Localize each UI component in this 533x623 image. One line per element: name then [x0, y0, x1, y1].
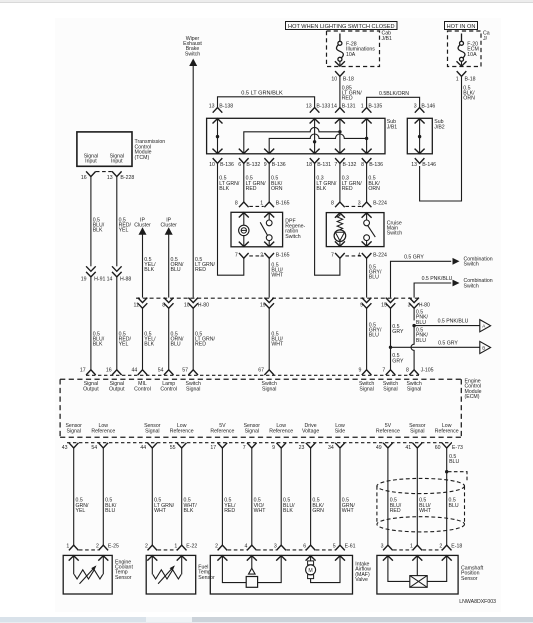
connector B-146 pin 3	[414, 104, 436, 113]
fuse box Cab J/B1 right	[448, 31, 482, 67]
svg-text:10A: 10A	[346, 52, 356, 58]
svg-text:16: 16	[106, 368, 112, 374]
Sub J/B1 output arrow B-136 10	[213, 149, 223, 154]
ECM bottom pin 44	[140, 443, 157, 451]
sensor wire	[387, 448, 389, 546]
label Transmission Control Module	[135, 139, 166, 161]
label Intake Airflow MAF Valve	[355, 561, 371, 583]
svg-text:Signal: Signal	[66, 428, 80, 434]
svg-text:13: 13	[107, 175, 113, 181]
svg-text:GRY: GRY	[392, 329, 404, 335]
svg-text:BLU: BLU	[105, 508, 115, 514]
fuse F-20 ECM 10A	[457, 34, 479, 67]
connector B-224 top link dash	[345, 205, 361, 207]
ECM pin function Switch Signal top x390.5	[383, 381, 398, 393]
connector B-165 bottom link dash	[249, 255, 263, 257]
connector B-136 pin 9	[264, 158, 286, 168]
sensor wire	[181, 448, 183, 546]
DPF illumination lamp	[239, 212, 249, 247]
wire label 0.5 LT GRN/ RED at x243.8	[246, 176, 267, 192]
DPF switch contact lower	[266, 235, 272, 241]
ECM pin function Sensor Signal bottom x251.8	[244, 423, 261, 435]
module box ECM dashed	[60, 379, 461, 437]
wire B-132 pin7 to B-224 pin8	[339, 163, 341, 202]
MAF solenoid triangle	[249, 568, 256, 574]
svg-text:10: 10	[331, 76, 337, 82]
svg-text:23: 23	[299, 445, 305, 451]
svg-text:Switch: Switch	[387, 231, 402, 237]
svg-text:Control: Control	[160, 387, 177, 393]
svg-text:6: 6	[238, 162, 241, 168]
fuel sensor wires	[152, 555, 181, 574]
svg-text:GRN: GRN	[312, 508, 324, 514]
coolant sensor thermistor	[74, 565, 103, 583]
svg-text:19: 19	[260, 303, 266, 309]
ECM top pin 9	[359, 368, 372, 375]
connector B-136 pin 8	[361, 158, 383, 168]
wire label 0.5 GRY to B	[438, 340, 458, 346]
arrow to wiper exhaust brake switch	[189, 59, 197, 67]
svg-text:BLU: BLU	[171, 267, 181, 273]
wire label 0.5 BLK/ BLU bottom x103.3	[105, 498, 117, 514]
svg-text:57: 57	[182, 368, 188, 374]
wire label 0.5 GRY/BLU upper	[369, 264, 382, 280]
Sub J/B2 bus wire	[418, 118, 421, 154]
svg-text:Signal: Signal	[359, 387, 373, 393]
fuel sensor thermistor	[153, 565, 181, 583]
svg-text:0.5 GRY: 0.5 GRY	[438, 340, 458, 346]
svg-text:E-25: E-25	[108, 543, 119, 549]
svg-text:14: 14	[107, 277, 113, 283]
svg-text:14: 14	[331, 104, 337, 110]
shield drain junction	[445, 470, 448, 473]
svg-text:2: 2	[96, 543, 99, 549]
svg-text:1: 1	[174, 543, 177, 549]
connector H-80 pin 19	[260, 298, 274, 309]
svg-text:B-136: B-136	[220, 162, 234, 168]
Sub J/B1 bus wire v3	[366, 118, 368, 154]
svg-text:19: 19	[81, 277, 87, 283]
ECM bottom pin 34	[328, 443, 345, 451]
svg-text:3: 3	[381, 543, 384, 549]
wire label 0.5 LT GRN/ WHT bottom x152.3	[154, 498, 175, 514]
Sub J/B1 link wire upper	[244, 127, 342, 153]
wire label 0.5 VIO/ WHT bottom x251.8	[254, 498, 267, 514]
svg-text:54: 54	[91, 445, 97, 451]
svg-text:Switch: Switch	[285, 234, 300, 240]
connector E-22 pin 1 bottom	[174, 543, 197, 550]
svg-text:H-88: H-88	[120, 277, 131, 283]
connector B-131 pin 18	[306, 158, 331, 168]
svg-text:YEL: YEL	[119, 342, 129, 348]
connector E pin 2 bottom	[145, 543, 157, 550]
connector E pin 6 bottom	[303, 543, 315, 550]
svg-text:8: 8	[361, 162, 364, 168]
svg-text:44: 44	[140, 445, 146, 451]
svg-text:B-228: B-228	[120, 175, 134, 181]
ECM bottom pin row dashes	[67, 442, 452, 444]
label Engine Control Module ECM	[465, 378, 482, 400]
svg-text:B-138: B-138	[219, 104, 233, 110]
page top border	[0, 0, 533, 2]
bottom status band	[0, 617, 533, 622]
connector E pin 1 bottom	[66, 543, 78, 550]
svg-text:HOT WHEN LIGHTING SWITCH CLOSE: HOT WHEN LIGHTING SWITCH CLOSED	[288, 24, 395, 30]
svg-text:8: 8	[331, 200, 334, 206]
wire label 0.5 BLU/ WHT bottom x417.3	[419, 498, 432, 514]
svg-text:49: 49	[376, 445, 382, 451]
DPF switch wire upper stub	[268, 212, 270, 220]
svg-text:Signal: Signal	[410, 428, 424, 434]
svg-text:Sensor: Sensor	[198, 575, 215, 581]
cruise switch input arrow left	[335, 213, 345, 218]
svg-text:Signal: Signal	[383, 387, 397, 393]
svg-text:0.5BLK/ORN: 0.5BLK/ORN	[379, 91, 409, 97]
svg-text:13: 13	[209, 104, 215, 110]
svg-text:BLK: BLK	[144, 342, 154, 348]
wire label 0.5 RED/YEL upper	[119, 217, 132, 233]
wire wiper switch to H-80	[192, 66, 194, 298]
wire label 0.5 BLK/ GRN bottom x310.6	[312, 498, 324, 514]
wire label 0.5 ORN/BLU	[171, 257, 185, 273]
svg-text:WHT: WHT	[154, 508, 167, 514]
svg-text:2: 2	[439, 543, 442, 549]
DPF switch output arrow right	[264, 242, 274, 247]
svg-text:13: 13	[411, 162, 417, 168]
svg-text:43: 43	[62, 445, 68, 451]
svg-text:WHT: WHT	[271, 342, 284, 348]
label Wiper Exhaust Brake Switch	[183, 36, 202, 58]
ECM top pin row dashes	[86, 374, 419, 376]
ECM pin function Sensor Signal bottom x73.7	[65, 423, 82, 435]
wire label 0.5 GRY upper	[392, 324, 404, 335]
svg-text:WHT: WHT	[419, 508, 432, 514]
bottom connector link dash	[228, 549, 247, 551]
svg-text:B-165: B-165	[276, 252, 290, 258]
connector H-80 pin 15	[381, 298, 395, 309]
svg-text:5: 5	[333, 543, 336, 549]
arrow to IP cluster 2	[165, 227, 173, 235]
MAF solenoid wires	[222, 555, 281, 582]
ECM bottom pin 43	[62, 443, 79, 451]
svg-text:YEL: YEL	[76, 508, 86, 514]
connector B-138 pin 13	[209, 104, 234, 113]
wire label 0.5 BLK/ORN right fuse	[463, 85, 475, 101]
svg-text:7: 7	[382, 368, 385, 374]
svg-text:1: 1	[410, 543, 413, 549]
ECM pin function Switch Signal top x414.1	[406, 381, 421, 393]
Sub J/B1 input arrow B-138	[213, 119, 223, 124]
wire B-136 pin10 to B-165 pin7	[218, 163, 244, 275]
Sub J/B1 bus wire v1	[313, 118, 316, 154]
sensor wire	[310, 448, 312, 546]
camshaft sensor wires	[388, 555, 447, 581]
svg-text:9: 9	[360, 303, 363, 309]
wire to ECM pin	[268, 308, 270, 369]
wire label 0.5 PNK/BLU combination	[422, 276, 453, 282]
svg-text:15: 15	[381, 303, 387, 309]
wire label 0.5 BLU top right	[449, 454, 459, 465]
arrow to IP cluster 1	[139, 227, 147, 235]
wire label 0.5 BLU/WHT upper	[271, 262, 284, 278]
wire TCM 13 to H-88	[116, 177, 118, 267]
svg-text:H-80: H-80	[419, 303, 430, 309]
wire label 0.5 GRY lower	[392, 353, 404, 364]
connector B-224 pin 8	[331, 200, 345, 207]
cruise switch output arrow right	[362, 241, 372, 246]
connector B-224 pin 3	[358, 200, 387, 207]
svg-text:1: 1	[260, 200, 263, 206]
svg-text:RED: RED	[342, 186, 353, 192]
sensor wire	[251, 448, 253, 546]
svg-text:B: B	[482, 345, 485, 350]
svg-text:Switch: Switch	[464, 283, 479, 289]
sensor box Engine Coolant Temp Sensor	[63, 555, 112, 594]
wire B-136 pin9 to B-165 pin1	[268, 163, 270, 202]
svg-text:J-105: J-105	[421, 368, 434, 374]
wire label 0.5 BLU/ BLK bottom x281.2	[283, 498, 295, 514]
wire label 0.5 BLU/ RED bottom x387.9	[390, 498, 402, 514]
svg-text:Input: Input	[85, 159, 97, 165]
svg-text:0.5 PNK/BLU: 0.5 PNK/BLU	[422, 276, 453, 282]
wire B-131 pin18 to B-224 pin7	[315, 163, 340, 275]
svg-text:BLK: BLK	[219, 186, 229, 192]
DPF switch contact upper	[266, 220, 272, 226]
wire label 0.5 BLU/WHT lower	[271, 331, 284, 347]
wire label 0.5 GRN/ WHT bottom x340	[342, 498, 356, 514]
svg-text:ORN: ORN	[368, 186, 380, 192]
ECM pin function 5V Reference bottom x387.9	[376, 423, 400, 435]
svg-text:7: 7	[235, 252, 238, 258]
sensor wire	[446, 448, 448, 546]
wire to B	[391, 346, 480, 348]
svg-text:B-133: B-133	[316, 104, 330, 110]
wire label 0.5 BLU/BLK lower	[93, 331, 105, 347]
connector B-165 top link dash	[249, 205, 263, 207]
label Cruise Main Switch	[387, 220, 402, 236]
Sub J/B2 output arrow	[415, 149, 425, 154]
label IP Cluster 2	[160, 217, 177, 228]
coolant sensor wires	[74, 555, 104, 574]
connector B-131 pin 14	[331, 104, 356, 113]
connector B-224 bottom link dash	[345, 255, 361, 257]
svg-text:17: 17	[210, 445, 216, 451]
svg-text:RED: RED	[195, 267, 206, 273]
header HOT IN ON	[445, 22, 478, 30]
svg-text:Sensor: Sensor	[461, 576, 478, 582]
svg-text:Control: Control	[134, 387, 151, 393]
svg-text:18: 18	[306, 162, 312, 168]
label IP Cluster 1	[134, 217, 151, 228]
ECM top pin 54	[158, 368, 174, 375]
junction box Sub J/B2	[407, 118, 432, 154]
ECM bottom pin 7	[243, 443, 257, 451]
svg-text:8: 8	[162, 303, 165, 309]
label Sub J/B2	[434, 119, 444, 130]
camshaft sensor element	[410, 576, 427, 588]
connector E-25 pin 2 bottom	[96, 543, 119, 550]
connector H-88 pin 14	[107, 266, 132, 282]
svg-text:ORN: ORN	[271, 186, 283, 192]
connector B-165 pin 2	[260, 252, 289, 258]
wire IP cluster 2 down	[168, 234, 170, 297]
svg-text:9: 9	[264, 162, 267, 168]
cruise switch contact upper	[364, 220, 370, 226]
ECM pin function Signal Output top x90.9	[83, 381, 99, 393]
svg-text:B-131: B-131	[317, 162, 331, 168]
svg-text:M: M	[308, 568, 312, 574]
svg-text:E-18: E-18	[451, 543, 462, 549]
wire combination switch PNK/BLU	[414, 283, 451, 298]
Sub J/B1 input arrow B-131	[335, 119, 345, 124]
wire label 0.5 YEL/BLK lower	[144, 331, 156, 347]
svg-text:9: 9	[359, 368, 362, 374]
cruise switch lever	[368, 226, 376, 238]
label Sub J/B1	[387, 119, 397, 130]
bottom connector link dash	[257, 549, 276, 551]
cruise switch input arrow right	[362, 213, 372, 218]
wire label 0.5 WHT/ BLK bottom x181.7	[184, 498, 198, 514]
svg-text:2: 2	[145, 543, 148, 549]
wire label 0.5 YEL/BLK	[144, 257, 156, 273]
svg-text:8: 8	[406, 368, 409, 374]
svg-text:Switch: Switch	[185, 51, 200, 57]
ECM bottom pin 23	[299, 443, 316, 451]
svg-text:3: 3	[408, 303, 411, 309]
wire to ECM pin	[142, 308, 144, 369]
svg-text:Reference: Reference	[91, 428, 115, 434]
svg-text:11: 11	[134, 303, 139, 309]
Sub J/B1 output arrow B-132 7	[335, 149, 345, 154]
svg-text:H-80: H-80	[198, 303, 209, 309]
scan background	[55, 18, 501, 612]
ECM top pin 16	[106, 368, 122, 375]
DPF switch input arrow right	[264, 213, 274, 218]
ECM pin function MIL Control top x142.5	[134, 381, 151, 393]
ECM top pin 8	[406, 368, 434, 375]
ECM pin function Signal Output top x116.8	[109, 381, 125, 393]
svg-text:B-146: B-146	[422, 162, 436, 168]
ECM pin function Low Reference bottom x446.7	[435, 423, 459, 435]
svg-text:BLU: BLU	[416, 338, 426, 344]
svg-text:B-224: B-224	[373, 200, 387, 206]
ECM top pin 17	[80, 368, 96, 375]
svg-text:Reference: Reference	[435, 428, 459, 434]
wire label 0.5 LT GRN/RED lower	[195, 331, 216, 347]
connector B-133 pin 13	[306, 104, 331, 113]
svg-text:WHT: WHT	[342, 508, 355, 514]
svg-text:3: 3	[414, 104, 417, 110]
Sub J/B1 input arrow B-133	[310, 119, 320, 124]
svg-text:Voltage: Voltage	[302, 428, 319, 434]
junction box Sub J/B1	[207, 118, 385, 154]
svg-text:BLK: BLK	[93, 342, 103, 348]
connector B-18 pin 10	[331, 71, 354, 82]
svg-text:BLK: BLK	[184, 508, 194, 514]
ECM bottom pin 17	[210, 443, 227, 451]
arrow to combination switch 2	[453, 280, 460, 287]
connector E pin 3 bottom	[381, 543, 393, 550]
svg-text:Input: Input	[111, 159, 123, 165]
svg-text:(ECM): (ECM)	[465, 394, 480, 400]
shield flag dashes	[448, 472, 467, 483]
svg-text:Signal: Signal	[145, 428, 159, 434]
sensor box Intake Airflow MAF Valve	[210, 555, 352, 594]
bottom connector link dash	[393, 549, 412, 551]
wire label 0.5 GRN/ YEL bottom x73.7	[76, 498, 90, 514]
DPF switch output arrow left	[239, 242, 249, 247]
label TCM signal input 2	[110, 153, 124, 164]
wire label 0.5 ORN/BLU lower	[171, 331, 185, 347]
wire label 0.5BLK/ORN top	[379, 91, 409, 97]
wire label 0.5 BLK/ ORN at x366.6	[368, 176, 380, 192]
wire label 0.5 LT GRN/RED wiper	[195, 257, 216, 273]
ECM bottom pin 60	[435, 443, 463, 451]
wire H-80 3 to ECM 8	[411, 308, 416, 369]
svg-text:BLU: BLU	[369, 333, 379, 339]
wire label 0.5 GRY combination	[404, 254, 424, 260]
svg-text:3: 3	[274, 543, 277, 549]
connector E pin 4 bottom	[245, 543, 257, 550]
label DPF Regeneration Switch	[285, 218, 305, 240]
label Cab J/B1 right clipped	[483, 31, 490, 42]
svg-text:B-132: B-132	[343, 162, 357, 168]
label Combination Switch 1	[464, 256, 493, 267]
wire label 0.5 LT GRN/BLK top	[241, 90, 283, 96]
bottom connector link dash	[316, 549, 335, 551]
wire to ECM pin	[192, 308, 194, 369]
MAF input arrows	[217, 556, 345, 561]
connector H-80 pin 3	[408, 298, 430, 309]
sensor wire	[221, 448, 223, 546]
connector B-165 pin 8	[235, 200, 249, 207]
ECM bottom pin 9	[272, 443, 286, 451]
svg-text:RED: RED	[390, 508, 401, 514]
svg-text:1: 1	[456, 76, 459, 82]
connector B-132 pin 6	[238, 158, 260, 168]
ECM bottom pin 49	[376, 443, 393, 451]
svg-text:Signal: Signal	[262, 387, 276, 393]
svg-text:J/B1: J/B1	[382, 36, 392, 42]
svg-text:RED: RED	[246, 186, 257, 192]
wire TCM 16 to H-91	[90, 177, 92, 267]
svg-text:17: 17	[80, 368, 86, 374]
sensor box Fuel Temp Sensor	[146, 555, 196, 594]
svg-text:J/B2: J/B2	[434, 124, 444, 130]
wire to ECM pin	[168, 308, 170, 369]
svg-text:Valve: Valve	[355, 577, 368, 583]
connector B-228 pin 13	[107, 171, 135, 181]
ECM pin function Low Reference bottom x103.3	[91, 423, 115, 435]
flow arrow A	[480, 320, 491, 332]
sensor wire	[339, 448, 341, 546]
svg-text:B-165: B-165	[276, 200, 290, 206]
svg-text:55: 55	[170, 445, 176, 451]
svg-text:1: 1	[361, 104, 364, 110]
wire label 0.5 PNK/BLU 1	[416, 309, 429, 325]
svg-text:BLK: BLK	[144, 267, 154, 273]
connector H-80 pin 8	[162, 298, 173, 309]
svg-text:1: 1	[66, 543, 69, 549]
svg-text:B-136: B-136	[272, 162, 286, 168]
Sub J/B2 input arrow	[415, 119, 425, 124]
svg-text:54: 54	[158, 368, 164, 374]
svg-text:B-135: B-135	[368, 104, 382, 110]
svg-text:9: 9	[272, 445, 275, 451]
svg-text:YEL: YEL	[119, 228, 129, 234]
svg-text:BLU: BLU	[416, 320, 426, 326]
svg-text:34: 34	[328, 445, 334, 451]
